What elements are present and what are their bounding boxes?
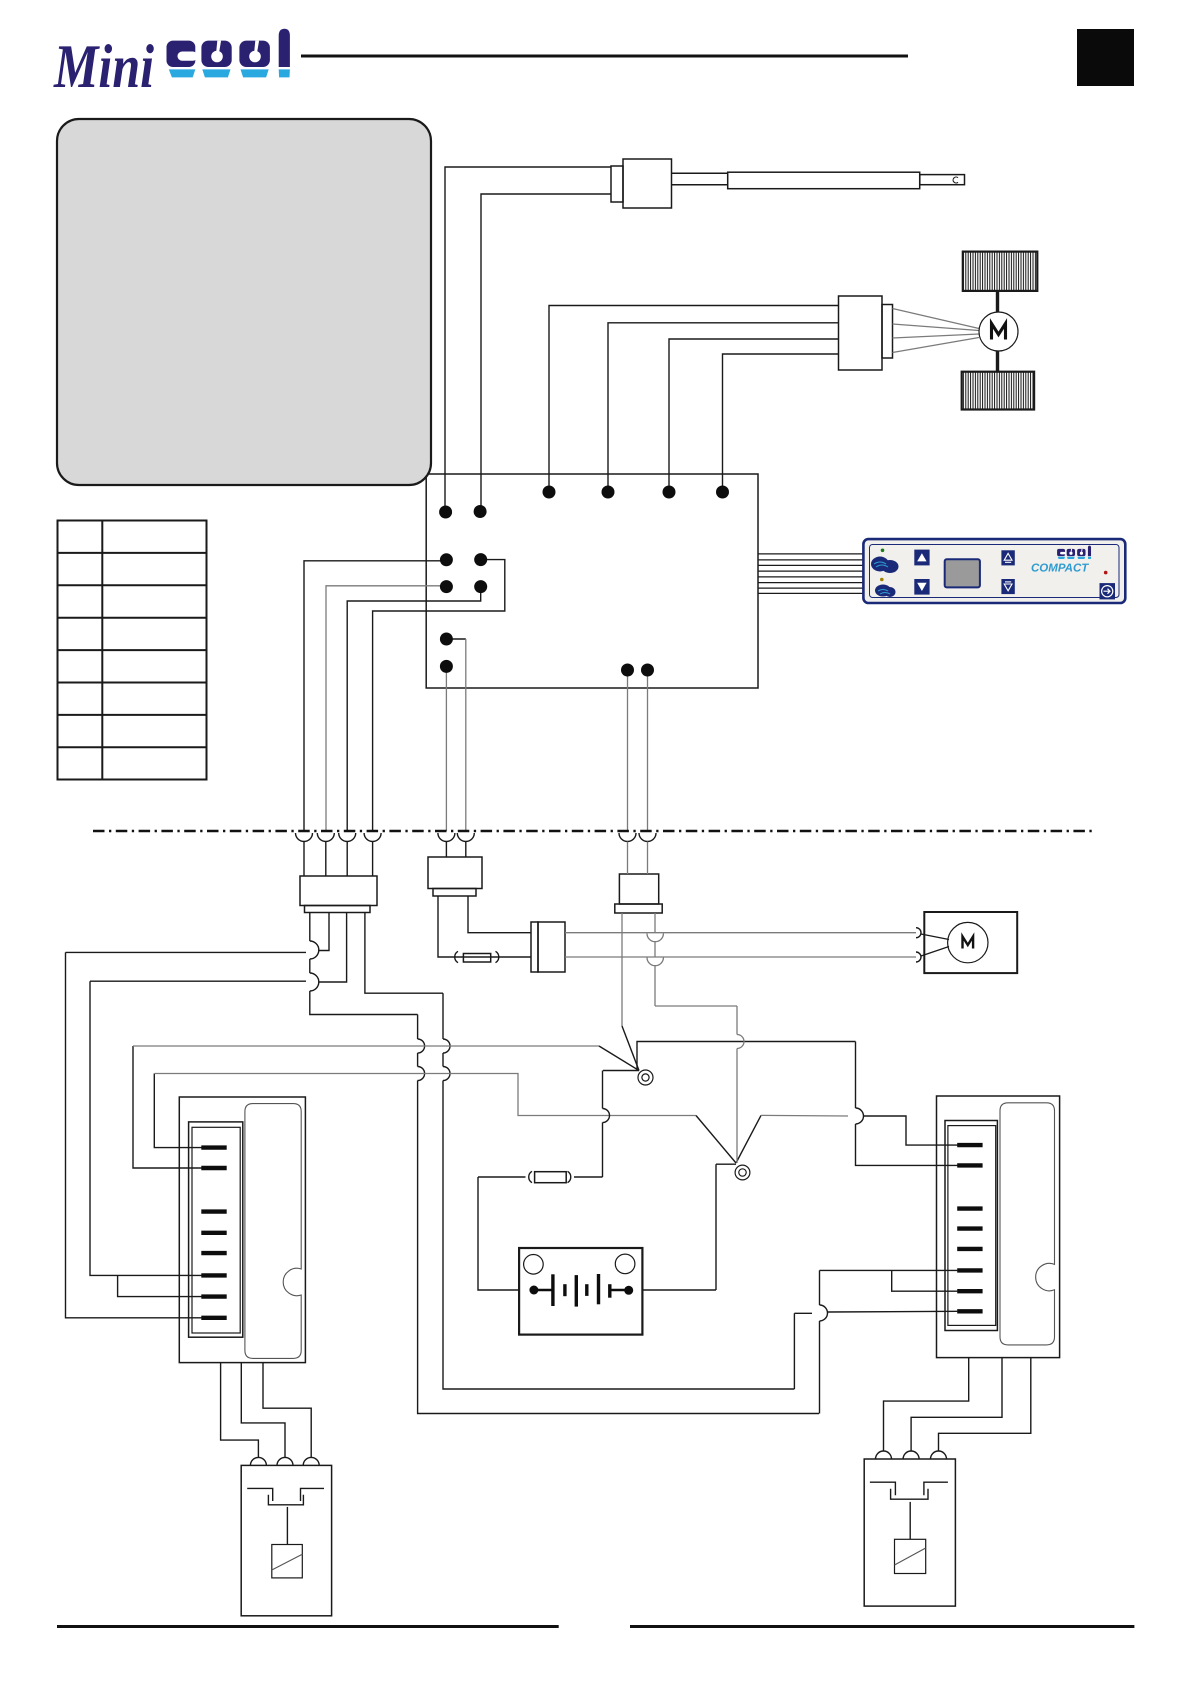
svg-text:Mini: Mini [53, 33, 154, 101]
svg-text:COMPACT: COMPACT [1031, 563, 1089, 575]
